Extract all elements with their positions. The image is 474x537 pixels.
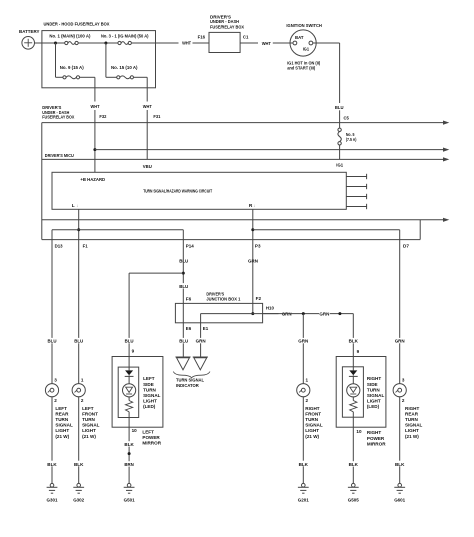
svg-text:TURN: TURN [55,417,68,422]
svg-text:(LED): (LED) [367,404,380,409]
svg-text:LIGHT: LIGHT [305,428,319,433]
svg-text:RIGHT: RIGHT [405,406,419,411]
svg-text:+B HAZARD: +B HAZARD [80,177,105,182]
svg-text:9: 9 [132,349,135,354]
svg-text:(7.5 A): (7.5 A) [346,137,357,142]
node F32 branch junction [93,148,96,151]
svg-text:No. 3 - 1 (IG MAIN) (50 A): No. 3 - 1 (IG MAIN) (50 A) [101,34,149,39]
svg-text:SIDE: SIDE [367,382,378,387]
svg-text:G301: G301 [47,498,58,503]
wire fuse No.9 to F32 drop [80,76,95,78]
svg-text:FUSE/RELAY BOX: FUSE/RELAY BOX [42,115,75,120]
wire fuse No.15 to F31 drop [134,76,148,78]
wire into LED left mirror [128,357,130,371]
svg-text:SIGNAL: SIGNAL [82,423,100,428]
svg-text:IGNITION SWITCH: IGNITION SWITCH [286,23,322,29]
svg-text:1: 1 [306,377,309,382]
svg-text:F31: F31 [153,114,160,119]
driver MICU box [42,153,450,222]
svg-text:10: 10 [356,429,362,434]
wire BRN label [124,461,134,466]
svg-text:TURN: TURN [82,417,95,422]
svg-text:BLU: BLU [335,105,344,111]
svg-text:GRN: GRN [196,339,207,344]
wire D7 GRN to right rear light [399,240,401,384]
svg-text:UNDER - HOOD FUSE/RELAY BOX: UNDER - HOOD FUSE/RELAY BOX [44,22,111,28]
svg-text:BLK: BLK [74,462,84,467]
svg-text:TURN: TURN [367,387,380,392]
svg-text:BLU: BLU [125,339,135,344]
svg-text:TURN: TURN [143,387,156,392]
svg-text:2: 2 [54,398,57,403]
wire left front bulb to ground BLK [78,397,80,484]
svg-text:(21 W): (21 W) [82,434,96,439]
svg-text:C1: C1 [243,34,249,39]
svg-text:GRN: GRN [395,339,406,344]
LED right side turn signal light [347,370,360,411]
svg-text:MIRROR: MIRROR [367,441,386,446]
turn signal indicator brace and label [173,372,210,389]
fuse No.5 7.5A [338,128,357,145]
svg-text:BATTERY: BATTERY [19,29,40,35]
svg-text:LIGHT: LIGHT [143,399,157,404]
ground G501 [124,483,135,502]
svg-text:G201: G201 [298,498,309,503]
svg-text:RIGHT: RIGHT [367,376,381,381]
svg-text:GRN: GRN [248,258,259,263]
wire +B distribution to other circuits [95,149,444,151]
wire WHT to F16 [193,42,210,44]
svg-text:IG1 HOT in ON (II): IG1 HOT in ON (II) [287,60,320,65]
wire C1 to ignition switch with WHT label [240,42,258,44]
node P14 branch to mirror [182,272,185,275]
driver junction box 1 [175,291,262,323]
svg-text:↓: ↓ [253,203,255,208]
wire branch to fuse No.9 [55,43,57,77]
node splice on H10 wire [338,312,341,315]
svg-text:1: 1 [81,377,84,382]
svg-text:G505: G505 [348,498,359,503]
svg-text:POWER: POWER [367,436,385,441]
svg-text:LEFT: LEFT [82,406,94,411]
wire P3 GRN down [248,258,258,263]
right side turn signal light label [367,376,385,409]
wire L output down [78,209,80,239]
svg-text:IG1: IG1 [303,46,310,51]
svg-text:D7: D7 [403,243,409,248]
svg-text:E1: E1 [203,326,209,331]
ground G601 [394,483,405,502]
ground G201 [298,483,309,502]
fuse No.9 15A [60,65,84,79]
wire branch to left mirror [129,272,183,274]
svg-text:(21 W): (21 W) [55,434,69,439]
svg-text:BLK: BLK [349,462,359,467]
svg-text:FRONT: FRONT [305,411,321,416]
svg-text:SIDE: SIDE [143,382,154,387]
battery [19,29,40,49]
svg-text:L: L [72,203,75,209]
wire LED to pin 10 right [352,412,354,427]
svg-text:TURN: TURN [305,417,318,422]
svg-text:No. 15 (10 A): No. 15 (10 A) [111,65,138,70]
svg-text:BLK: BLK [349,339,359,344]
svg-text:POWER: POWER [142,435,160,440]
wire fuse No.1 to No.3-1 [78,42,117,44]
svg-text:P3: P3 [255,243,261,248]
wire F2 to H10 [253,313,279,315]
svg-text:INDICATOR: INDICATOR [176,383,199,388]
svg-text:2: 2 [402,398,405,403]
svg-text:WHT: WHT [262,41,271,47]
svg-text:(21 W): (21 W) [305,434,319,439]
svg-text:BLK: BLK [47,462,57,467]
stub outputs right of turn box [346,174,366,209]
wire LED to pin 10 [128,412,130,427]
svg-text:LEFT: LEFT [143,376,155,381]
svg-text:VBU: VBU [143,164,153,169]
node F2 junction inside box [251,312,254,315]
svg-text:BLU: BLU [179,339,189,344]
left power mirror box [112,357,163,428]
svg-text:BLK: BLK [124,442,134,447]
svg-text:LIGHT: LIGHT [367,399,381,404]
svg-text:RIGHT: RIGHT [305,406,319,411]
svg-text:F6: F6 [186,296,192,301]
svg-text:3: 3 [54,377,57,382]
svg-text:(21 W): (21 W) [405,434,419,439]
svg-text:and START (III): and START (III) [287,66,315,71]
svg-text:LIGHT: LIGHT [405,428,419,433]
right front turn signal light bulb [297,377,323,438]
left side turn signal light label [143,376,161,409]
node R junction [251,228,254,231]
wire left rear bulb to ground BLK [51,397,53,484]
wire into LED right mirror [352,357,354,371]
wire E6 BLU to indicator left [182,323,184,357]
svg-text:F1: F1 [83,243,88,248]
fuse No.3-1 IG MAIN 50A [101,34,149,45]
svg-text:E6: E6 [186,326,192,331]
wire BLU C5 into box [335,104,345,110]
left front turn signal light bulb [72,377,100,438]
wire F1 to left front light BLU [78,240,80,384]
svg-text:No. 1 (MAIN) (100 A): No. 1 (MAIN) (100 A) [49,34,90,39]
wire R output down [252,209,254,239]
svg-text:SIGNAL: SIGNAL [367,393,385,398]
node junction No.15 branch [104,42,107,45]
svg-text:BLU: BLU [179,258,189,263]
wire R branch to D7 [253,229,400,231]
wire right front bulb to ground BLK [302,397,304,484]
svg-text:GRN: GRN [282,312,293,317]
turn signal indicator right arrow [193,356,208,358]
svg-text:LEFT: LEFT [142,429,154,434]
svg-text:TURN: TURN [405,417,418,422]
svg-text:MIRROR: MIRROR [142,441,161,446]
wire BLU label left mirror feed [124,338,134,343]
wire right rear bulb to ground BLK [399,397,401,484]
ground G302 [73,483,84,502]
svg-text:2: 2 [81,398,84,403]
LED left side turn signal light [123,370,136,411]
svg-text:F16: F16 [198,35,206,40]
wire F6 through junction box to E6 [182,303,184,322]
svg-text:BLU: BLU [179,284,189,289]
svg-text:G501: G501 [124,498,135,503]
right rear turn signal light bulb [393,377,422,438]
svg-text:D13: D13 [55,243,63,248]
svg-text:C5: C5 [344,116,350,121]
node L junction [77,228,80,231]
under-dash box outline [42,121,450,240]
wire F2 to E1 inside box [201,313,253,315]
svg-text:WHT: WHT [91,104,100,110]
svg-text:TURN SIGNAL: TURN SIGNAL [176,378,204,383]
svg-text:G302: G302 [73,498,84,503]
svg-text:SIGNAL: SIGNAL [305,423,323,428]
svg-text:↓: ↓ [76,203,78,208]
svg-text:BLU: BLU [74,339,84,344]
svg-text:GRN: GRN [319,312,330,317]
svg-text:2: 2 [306,398,309,403]
wire pin10 BLK down [128,427,130,483]
fuse No.15 10A [111,65,138,79]
wire down to right mirror BLK [352,314,354,357]
svg-text:SIGNAL: SIGNAL [143,393,161,398]
left rear turn signal light bulb [45,377,73,438]
svg-text:10: 10 [132,428,138,433]
svg-text:F2: F2 [256,296,262,301]
svg-text:FUSE/RELAY BOX: FUSE/RELAY BOX [210,24,245,29]
svg-text:H10: H10 [266,306,274,311]
svg-text:BLK: BLK [299,462,309,467]
left power mirror label [142,429,161,445]
ignition switch [286,23,322,71]
svg-text:LIGHT: LIGHT [55,428,69,433]
svg-text:BLK: BLK [395,462,405,467]
wire branch to fuse No.15 [105,43,107,77]
wire down to right front light GRN [302,314,304,384]
ground G301 [47,483,58,502]
svg-text:RIGHT: RIGHT [367,430,381,435]
svg-text:LIGHT: LIGHT [82,428,96,433]
svg-text:No. 9 (15 A): No. 9 (15 A) [60,65,84,70]
node splice BLK/BRN [128,452,131,455]
wire battery to under-hood box [35,42,65,44]
wire L branch to D13 and P14 [52,229,183,231]
wire ignition IG1 to C5 drop [313,42,340,44]
svg-text:IG1: IG1 [336,163,343,168]
svg-text:SIGNAL: SIGNAL [405,423,423,428]
right power mirror label [367,430,386,446]
right power mirror box [336,357,386,428]
svg-text:(LED): (LED) [143,404,156,409]
turn signal/hazard warning circuit box [52,172,346,209]
svg-text:9: 9 [357,349,360,354]
svg-text:3: 3 [402,377,405,382]
svg-text:P14: P14 [186,243,194,248]
svg-text:JUNCTION BOX 1: JUNCTION BOX 1 [206,296,240,301]
ground G505 [348,483,359,502]
svg-text:FRONT: FRONT [82,411,98,416]
svg-text:SIGNAL: SIGNAL [55,423,73,428]
node main feed junction No.1 [54,42,57,45]
svg-text:WHT: WHT [143,104,152,110]
svg-text:DRIVER'S MICU: DRIVER'S MICU [45,153,75,158]
wire BLU label above F6 [179,283,190,288]
second GRN label on H10 wire [319,311,330,316]
svg-text:GRN: GRN [298,339,309,344]
svg-text:WHT: WHT [182,41,191,47]
driver under-dash fuse/relay box label [42,105,75,120]
svg-text:LEFT: LEFT [55,406,67,411]
wire E1 GRN to indicator right [200,323,202,357]
wire right mirror BLK down [352,427,354,483]
svg-text:REAR: REAR [55,411,69,416]
node right front branch [302,312,305,315]
connector F16 pass-through box (under-dash) [198,14,249,52]
wire H10 GRN to right front and mirror [281,311,292,316]
svg-text:BAT: BAT [295,35,304,40]
svg-text:G601: G601 [394,498,405,503]
wire D13 to left rear light BLU [51,240,53,384]
svg-text:TURN SIGNAL/HAZARD WARNING CIR: TURN SIGNAL/HAZARD WARNING CIRCUIT [143,188,212,193]
wire fuse No.5 to MICU IG1 [339,145,341,159]
svg-text:BLU: BLU [48,339,58,344]
svg-text:F32: F32 [99,114,106,119]
fuse No.1 MAIN 100A [49,34,90,45]
turn signal indicator left arrow [175,356,190,358]
wire fuse No.3-1 to WHT label [132,42,179,44]
wire P14 BLU down [179,258,190,263]
under-hood fuse/relay box [42,31,156,88]
svg-text:REAR: REAR [405,411,419,416]
svg-text:R: R [249,203,253,209]
svg-text:BRN: BRN [124,462,134,467]
